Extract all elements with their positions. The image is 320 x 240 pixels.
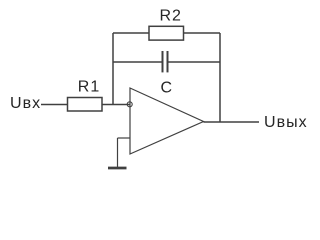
svg-text:C: C	[161, 80, 174, 97]
svg-text:Uвых: Uвых	[264, 114, 308, 131]
svg-text:R2: R2	[160, 8, 182, 25]
svg-text:Uвх: Uвх	[10, 95, 41, 112]
svg-text:R1: R1	[78, 79, 100, 96]
